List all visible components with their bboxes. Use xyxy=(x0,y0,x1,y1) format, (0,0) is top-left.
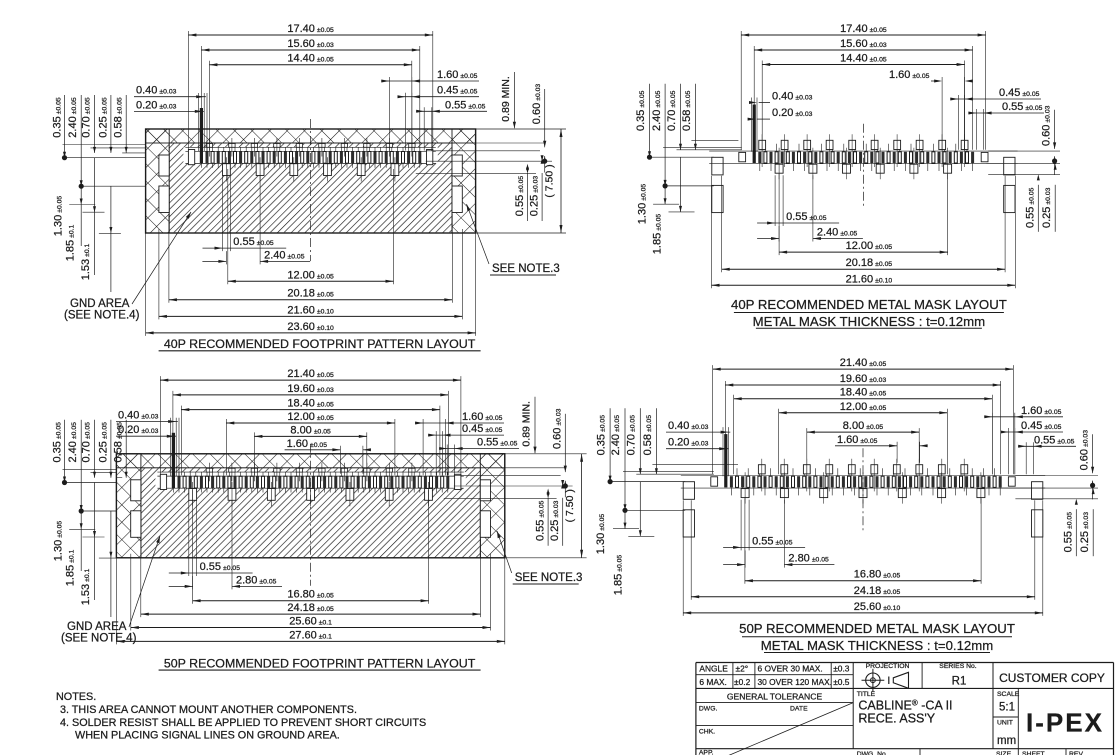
40P footprint right end mount pad xyxy=(427,150,433,165)
40P metal mask signal apertures (40 at 0.40 pitch) xyxy=(753,151,756,163)
40P footprint right dim cluster 1.60 / 0.45 / 0.55 xyxy=(381,80,479,82)
50P footprint right end mount pad xyxy=(455,474,461,489)
svg-text:ANGLE: ANGLE xyxy=(699,664,728,674)
svg-text:±0.2: ±0.2 xyxy=(734,677,751,687)
svg-text:REV.: REV. xyxy=(1069,751,1084,755)
svg-text:0.89 MIN.: 0.89 MIN. xyxy=(500,76,512,122)
50P footprint right extension lines xyxy=(505,453,587,455)
40P metal mask right mount aperture upper xyxy=(1004,157,1015,175)
50P footprint vertical centerline xyxy=(310,444,312,586)
40P footprint left vertical dimension group xyxy=(63,157,146,159)
40P footprint dim 0.40 pitch xyxy=(134,96,206,98)
50P metal mask pad 1 reference stem xyxy=(724,434,727,476)
svg-text:METAL MASK THICKNESS : t=0.12m: METAL MASK THICKNESS : t=0.12mm xyxy=(761,638,993,653)
40P footprint right extension lines xyxy=(476,128,566,130)
40P footprint left mount pad cutout lower xyxy=(159,186,169,213)
50P footprint right crosshatch band xyxy=(480,454,505,558)
svg-text:CHK.: CHK. xyxy=(699,729,715,736)
40P metal mask dims below xyxy=(757,222,783,224)
40P metal mask right end aperture xyxy=(981,152,988,161)
50P metal mask right end aperture xyxy=(1008,477,1015,486)
svg-text:50P RECOMMENDED FOOTPRINT PATT: 50P RECOMMENDED FOOTPRINT PATTERN LAYOUT xyxy=(164,656,476,670)
40P footprint pad row rails xyxy=(185,150,435,152)
50P footprint lower ground pads xyxy=(189,489,197,501)
50P footprint upper ground stub pads xyxy=(296,468,302,472)
40P footprint top crosshatch band xyxy=(146,129,476,143)
40P metal mask left lower dims 1.30 1.85 xyxy=(664,186,666,204)
svg-text:6 MAX.: 6 MAX. xyxy=(699,677,726,687)
svg-text:SEE NOTE.3: SEE NOTE.3 xyxy=(492,263,560,275)
50P metal mask dims below xyxy=(723,546,749,548)
svg-text:METAL MASK THICKNESS : t=0.12m: METAL MASK THICKNESS : t=0.12mm xyxy=(753,314,985,329)
50P footprint dim 0.20 pad width xyxy=(116,435,176,437)
50P footprint left end mount pad xyxy=(160,474,166,489)
title block grid lines xyxy=(696,674,853,676)
50P footprint right mount pad cutout upper xyxy=(480,480,490,501)
40P metal mask pad 1 reference stem xyxy=(753,105,756,152)
50P metal mask right mount aperture upper xyxy=(1032,482,1043,500)
40P footprint body hatched outline xyxy=(146,129,476,233)
svg-text:±0.5: ±0.5 xyxy=(833,677,850,687)
40P footprint signal pads row (40 pads 0.20 wide at 0.40 pitch) xyxy=(200,151,203,164)
50P metal mask left 0.55 side aperture xyxy=(711,477,718,486)
40P footprint vertical centerline xyxy=(310,119,312,261)
svg-text:DWG.: DWG. xyxy=(699,706,718,713)
40P footprint dim 0.20 pad width xyxy=(134,110,204,112)
40P metal mask vertical centerline xyxy=(862,124,864,208)
40P footprint left lower dims 1.30 1.85 xyxy=(80,186,82,246)
50P footprint dim 0.40 pitch xyxy=(116,421,178,423)
title block outer frame xyxy=(696,662,1114,664)
50P footprint body hatched outline xyxy=(116,454,504,558)
svg-text:40P RECOMMENDED FOOTPRINT PATT: 40P RECOMMENDED FOOTPRINT PATTERN LAYOUT xyxy=(164,337,476,351)
40P metal mask left vertical dims xyxy=(648,156,714,158)
svg-text:SERIES No.: SERIES No. xyxy=(939,663,977,670)
40P footprint right crosshatch band xyxy=(452,129,476,233)
40P metal mask pad row rails xyxy=(709,150,1017,152)
50P footprint right mount pad cutout lower xyxy=(480,511,490,538)
svg-text:( 7.50 ): ( 7.50 ) xyxy=(564,489,576,522)
40P metal mask right extension lines xyxy=(988,150,1060,152)
40P footprint dims below body xyxy=(203,247,231,249)
50P footprint centre dim 1.60 xyxy=(285,449,341,451)
50P metal mask pad row rails xyxy=(681,475,1045,477)
svg-text:I-PEX: I-PEX xyxy=(1026,708,1104,738)
50P metal mask right extension lines xyxy=(1015,475,1098,477)
50P footprint top crosshatch band xyxy=(116,454,504,468)
svg-text:PROJECTION: PROJECTION xyxy=(866,663,910,670)
40P metal mask right mount aperture lower xyxy=(1004,185,1015,212)
40P metal mask left 0.55 side aperture xyxy=(739,152,746,161)
svg-text:±2°: ±2° xyxy=(736,664,749,674)
svg-text:GENERAL TOLERANCE: GENERAL TOLERANCE xyxy=(727,692,823,702)
svg-text:SEE NOTE.3: SEE NOTE.3 xyxy=(515,572,583,584)
50P footprint left vertical dimension group xyxy=(63,482,117,484)
svg-text:TITLE: TITLE xyxy=(857,691,876,698)
50P metal mask left vertical dims xyxy=(608,481,685,483)
svg-text:5:1: 5:1 xyxy=(999,702,1015,714)
50P metal mask dim 0.40 / 0.20 xyxy=(666,431,730,433)
svg-text:3. THIS AREA CANNOT MOUNT ANOT: 3. THIS AREA CANNOT MOUNT ANOTHER COMPON… xyxy=(60,704,357,716)
svg-text:DATE: DATE xyxy=(790,706,808,713)
svg-text:RECE. ASS'Y: RECE. ASS'Y xyxy=(858,712,935,726)
svg-text:mm: mm xyxy=(997,735,1016,747)
40P metal mask stacked dimensions above xyxy=(741,34,985,36)
50P footprint left lower dims 1.30 1.85 xyxy=(80,511,82,571)
50P metal mask stacked dimensions above xyxy=(713,368,1014,370)
40P footprint right mount pad cutout lower xyxy=(452,186,462,213)
svg-text:CUSTOMER COPY: CUSTOMER COPY xyxy=(999,671,1105,685)
svg-text:CABLINE® -CA II: CABLINE® -CA II xyxy=(858,699,952,713)
50P footprint dims below body xyxy=(169,572,197,574)
40P footprint upper ground stub pads xyxy=(296,144,302,148)
svg-text:SCALE: SCALE xyxy=(997,691,1020,698)
50P footprint left crosshatch band xyxy=(116,454,140,558)
svg-text:(SEE NOTE.4): (SEE NOTE.4) xyxy=(61,633,137,645)
50P metal mask right mount aperture lower xyxy=(1032,510,1043,537)
40P metal mask lower ground apertures xyxy=(775,164,783,173)
svg-text:UNIT: UNIT xyxy=(997,720,1013,727)
40P footprint pad 1 reference stem xyxy=(200,108,203,152)
40P footprint left mount pad cutout upper xyxy=(159,155,169,176)
svg-text:6 OVER 30 MAX.: 6 OVER 30 MAX. xyxy=(758,664,823,674)
svg-text:30 OVER 120 MAX.: 30 OVER 120 MAX. xyxy=(758,677,832,687)
svg-text:GND AREA: GND AREA xyxy=(67,621,127,633)
40P footprint stacked dimensions above xyxy=(188,34,432,36)
svg-text:40P RECOMMENDED METAL MASK LAY: 40P RECOMMENDED METAL MASK LAYOUT xyxy=(731,297,1007,312)
40P footprint lower ground pads xyxy=(223,164,231,176)
40P metal mask right dim cluster xyxy=(931,80,934,82)
40P footprint solder-resist clear strip behind pads xyxy=(183,147,437,163)
svg-text:(SEE NOTE.4): (SEE NOTE.4) xyxy=(64,310,140,322)
40P footprint left end mount pad xyxy=(188,150,194,165)
40P metal mask upper ground apertures xyxy=(849,140,856,149)
50P footprint inner ground area diagonal hatch xyxy=(141,468,480,558)
svg-text:R1: R1 xyxy=(952,676,967,688)
40P metal mask dim 0.40 / 0.20 xyxy=(759,102,770,104)
svg-text:WHEN PLACING SIGNAL LINES ON G: WHEN PLACING SIGNAL LINES ON GROUND AREA… xyxy=(75,730,340,742)
svg-text:DWG. No.: DWG. No. xyxy=(857,751,888,755)
svg-text:4. SOLDER RESIST SHALL BE APPL: 4. SOLDER RESIST SHALL BE APPLIED TO PRE… xyxy=(60,717,426,729)
svg-text:NOTES.: NOTES. xyxy=(56,691,96,703)
svg-text:±0.3: ±0.3 xyxy=(833,664,850,674)
50P footprint right dim cluster 1.60 / 0.45 / 0.55 xyxy=(415,422,504,424)
50P footprint left mount pad cutout upper xyxy=(131,480,141,501)
50P footprint left mount pad cutout lower xyxy=(131,511,141,538)
svg-text:( 7.50 ): ( 7.50 ) xyxy=(543,164,555,197)
50P footprint signal pads row (50 pads 0.20 wide at 0.40 pitch) xyxy=(172,475,175,488)
svg-text:0.89 MIN.: 0.89 MIN. xyxy=(521,401,533,447)
svg-text:APP.: APP. xyxy=(699,750,714,755)
50P metal mask left lower dims 1.30 1.85 xyxy=(624,510,626,528)
50P footprint pad 1 reference stem xyxy=(172,433,175,477)
50P metal mask left mount aperture upper xyxy=(683,482,694,500)
svg-text:GND AREA: GND AREA xyxy=(70,298,130,310)
50P metal mask vertical centerline xyxy=(862,448,864,532)
50P metal mask lower ground apertures xyxy=(741,489,749,498)
svg-text:SHEET: SHEET xyxy=(1022,751,1045,755)
50P footprint stacked dimensions above xyxy=(160,379,461,381)
svg-text:50P RECOMMENDED METAL MASK LAY: 50P RECOMMENDED METAL MASK LAYOUT xyxy=(739,621,1015,636)
svg-text:SIZE: SIZE xyxy=(996,751,1012,755)
40P metal mask left mount aperture lower xyxy=(712,185,723,212)
50P footprint solder-resist clear strip behind pads xyxy=(155,472,465,488)
title block signature diagonal xyxy=(725,703,853,755)
40P metal mask left mount aperture upper xyxy=(712,157,723,175)
50P metal mask right dim cluster xyxy=(984,416,1063,418)
50P metal mask left mount aperture lower xyxy=(683,510,694,537)
50P metal mask signal apertures (50 at 0.40 pitch) xyxy=(724,475,727,487)
40P footprint left crosshatch band xyxy=(146,129,170,233)
50P footprint pad row rails xyxy=(157,475,463,477)
40P footprint right mount pad cutout upper xyxy=(452,155,462,176)
50P metal mask upper ground apertures xyxy=(848,465,855,474)
projection cone symbol xyxy=(888,677,890,685)
40P footprint inner ground area diagonal hatch xyxy=(169,143,452,233)
